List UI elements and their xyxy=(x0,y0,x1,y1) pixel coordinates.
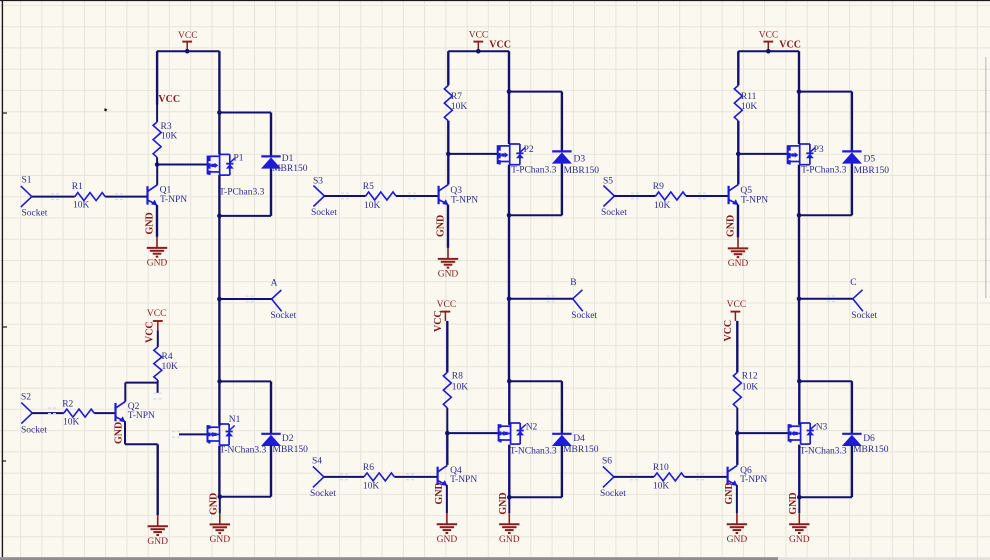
svg-text:T-NPN: T-NPN xyxy=(740,475,767,485)
svg-text:VCC: VCC xyxy=(779,39,801,50)
svg-text:B: B xyxy=(570,278,576,288)
svg-text:R4: R4 xyxy=(162,352,173,362)
svg-text:T-PChan3.3: T-PChan3.3 xyxy=(801,166,847,176)
svg-text:S2: S2 xyxy=(21,392,31,402)
svg-text:MBR150: MBR150 xyxy=(273,445,309,455)
svg-text:VCC: VCC xyxy=(178,31,198,41)
svg-text:R1: R1 xyxy=(72,182,83,192)
svg-text:GND: GND xyxy=(147,537,168,547)
svg-text:D1: D1 xyxy=(282,154,294,164)
svg-text:N3: N3 xyxy=(816,422,828,432)
svg-text:Socket: Socket xyxy=(600,489,626,499)
svg-text:GND: GND xyxy=(728,259,749,269)
svg-text:R5: R5 xyxy=(363,182,374,192)
svg-text:MBR150: MBR150 xyxy=(854,166,890,176)
svg-text:R11: R11 xyxy=(741,92,757,102)
svg-text:T-NPN: T-NPN xyxy=(451,196,478,206)
svg-text:Socket: Socket xyxy=(270,311,296,321)
svg-text:VCC: VCC xyxy=(469,31,489,41)
svg-text:GND: GND xyxy=(499,535,520,545)
svg-text:10K: 10K xyxy=(451,102,468,112)
svg-text:VCC: VCC xyxy=(437,300,457,310)
svg-text:GND: GND xyxy=(145,212,156,234)
svg-text:R7: R7 xyxy=(451,92,462,102)
svg-text:N1: N1 xyxy=(229,415,241,425)
svg-text:T-NPN: T-NPN xyxy=(160,195,187,205)
svg-text:D6: D6 xyxy=(863,434,875,444)
svg-text:VCC: VCC xyxy=(723,320,734,342)
svg-text:10K: 10K xyxy=(452,382,469,392)
svg-text:N2: N2 xyxy=(526,422,538,432)
svg-text:S4: S4 xyxy=(312,457,322,467)
svg-text:10K: 10K xyxy=(73,201,90,211)
svg-text:C: C xyxy=(850,278,856,288)
svg-text:T-PChan3.3: T-PChan3.3 xyxy=(219,187,265,197)
svg-text:Socket: Socket xyxy=(22,209,48,219)
svg-text:R10: R10 xyxy=(653,463,669,473)
svg-text:10K: 10K xyxy=(363,481,380,491)
svg-text:P1: P1 xyxy=(234,154,244,164)
svg-text:MBR150: MBR150 xyxy=(564,166,600,176)
svg-text:S1: S1 xyxy=(22,176,32,186)
svg-text:GND: GND xyxy=(727,535,748,545)
svg-text:GND: GND xyxy=(209,493,220,515)
svg-text:10K: 10K xyxy=(364,201,381,211)
svg-text:R12: R12 xyxy=(742,372,758,382)
svg-text:Socket: Socket xyxy=(601,208,627,218)
svg-text:R6: R6 xyxy=(363,463,374,473)
svg-text:GND: GND xyxy=(437,535,458,545)
svg-text:10K: 10K xyxy=(653,481,670,491)
svg-text:Socket: Socket xyxy=(21,426,47,436)
svg-text:R9: R9 xyxy=(653,182,664,192)
svg-text:10K: 10K xyxy=(741,102,758,112)
svg-text:GND: GND xyxy=(724,482,735,504)
svg-text:Socket: Socket xyxy=(851,311,877,321)
svg-text:GND: GND xyxy=(788,492,799,514)
svg-text:S5: S5 xyxy=(603,176,613,186)
svg-text:VCC: VCC xyxy=(433,310,444,332)
svg-text:S3: S3 xyxy=(313,176,323,186)
svg-text:VCC: VCC xyxy=(759,31,779,41)
svg-text:Socket: Socket xyxy=(311,208,337,218)
svg-text:MBR150: MBR150 xyxy=(853,445,889,455)
svg-text:R2: R2 xyxy=(62,400,73,410)
svg-text:10K: 10K xyxy=(63,417,80,427)
svg-text:D5: D5 xyxy=(864,154,876,164)
svg-text:T-NPN: T-NPN xyxy=(128,411,155,421)
svg-text:D2: D2 xyxy=(282,434,294,444)
svg-text:GND: GND xyxy=(789,535,810,545)
svg-text:10K: 10K xyxy=(654,201,671,211)
svg-text:S6: S6 xyxy=(602,457,612,467)
svg-text:VCC: VCC xyxy=(147,309,167,319)
svg-text:GND: GND xyxy=(498,492,509,514)
svg-text:VCC: VCC xyxy=(144,321,155,343)
svg-text:T-NPN: T-NPN xyxy=(450,475,477,485)
svg-text:GND: GND xyxy=(434,482,445,504)
svg-text:T-PChan3.3: T-PChan3.3 xyxy=(511,166,557,176)
svg-text:VCC: VCC xyxy=(489,39,511,50)
svg-text:T-NChan3.3: T-NChan3.3 xyxy=(219,446,266,456)
svg-text:GND: GND xyxy=(113,422,124,444)
svg-text:P3: P3 xyxy=(814,145,824,155)
svg-text:Socket: Socket xyxy=(310,489,336,499)
svg-text:T-NPN: T-NPN xyxy=(741,196,768,206)
svg-text:MBR150: MBR150 xyxy=(563,445,599,455)
svg-text:MBR150: MBR150 xyxy=(272,164,308,174)
svg-text:VCC: VCC xyxy=(727,300,747,310)
svg-text:Socket: Socket xyxy=(571,311,597,321)
svg-text:10K: 10K xyxy=(161,132,178,142)
svg-text:GND: GND xyxy=(147,259,168,269)
svg-text:R3: R3 xyxy=(161,122,172,132)
svg-text:D4: D4 xyxy=(573,434,585,444)
svg-text:VCC: VCC xyxy=(158,94,180,105)
svg-text:GND: GND xyxy=(210,535,231,545)
svg-text:A: A xyxy=(271,278,278,288)
svg-text:R8: R8 xyxy=(452,372,463,382)
svg-text:GND: GND xyxy=(435,215,446,237)
svg-text:P2: P2 xyxy=(524,145,534,155)
svg-text:GND: GND xyxy=(725,215,736,237)
svg-text:10K: 10K xyxy=(742,382,759,392)
svg-text:D3: D3 xyxy=(574,154,586,164)
svg-text:GND: GND xyxy=(438,270,459,280)
svg-text:T-NChan3.3: T-NChan3.3 xyxy=(510,447,557,457)
svg-text:T-NChan3.3: T-NChan3.3 xyxy=(800,447,847,457)
svg-text:10K: 10K xyxy=(162,362,179,372)
